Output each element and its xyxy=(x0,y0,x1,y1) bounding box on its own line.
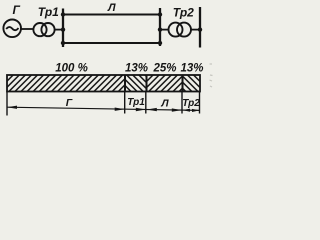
svg-text:Тр1: Тр1 xyxy=(127,97,145,108)
label Тр2 xyxy=(173,5,194,19)
value label 100% (Г) xyxy=(55,63,88,75)
busbar 2 xyxy=(159,8,161,46)
svg-text:Г: Г xyxy=(13,3,21,17)
junction busbar2 top xyxy=(158,12,162,16)
svg-text:13%: 13% xyxy=(125,63,148,75)
bar divider 2 xyxy=(146,75,148,92)
label Тр1 xyxy=(38,5,59,19)
wire Тр1 to busbar 1 xyxy=(55,29,63,31)
label Г xyxy=(13,3,21,17)
dimension arrow Г right xyxy=(115,108,125,111)
busbar 1 xyxy=(62,9,64,48)
junction busbar3 xyxy=(198,27,202,31)
svg-text:Л: Л xyxy=(160,98,169,110)
svg-text:Тр2: Тр2 xyxy=(173,5,194,19)
extension line Тр1 left xyxy=(124,92,126,114)
generator Г xyxy=(3,20,21,38)
dimension label Тр2 xyxy=(182,98,200,109)
dimension label Тр1 xyxy=(127,97,145,108)
bar segment Л hatched xyxy=(147,75,183,92)
junction busbar2 middle xyxy=(158,27,162,31)
bar divider 1 xyxy=(124,75,126,92)
dimension arrow Тр2 right xyxy=(192,109,200,112)
bar segment Г hatched xyxy=(7,75,125,92)
extension line Тр1 right xyxy=(145,92,147,114)
junction busbar1 middle xyxy=(61,27,65,31)
junction busbar1 bottom xyxy=(61,41,65,45)
busbar 3 xyxy=(199,7,201,48)
dimension label Г xyxy=(66,97,73,109)
bar outline xyxy=(7,75,200,92)
svg-text:13%: 13% xyxy=(180,63,203,75)
svg-text:25%: 25% xyxy=(152,63,176,75)
dimension arrow Тр2 left xyxy=(182,109,190,112)
dimension line xyxy=(7,107,200,110)
line Л bottom circuit wire xyxy=(63,42,160,44)
extension line left xyxy=(6,92,8,116)
dimension arrow Тр1 right xyxy=(136,108,146,111)
wire Г to Тр1 xyxy=(21,28,34,30)
svg-text:100 %: 100 % xyxy=(55,63,88,75)
label Л xyxy=(107,2,116,14)
value label 13% (Тр1) xyxy=(125,63,148,75)
bar segment Тр1 hatched xyxy=(125,75,147,92)
transformer Тр2 xyxy=(169,23,192,37)
transformer Тр1 xyxy=(33,23,54,36)
line Л top circuit wire xyxy=(63,14,160,16)
bar divider 3 xyxy=(182,75,184,92)
wire busbar 2 to Тр2 xyxy=(160,29,169,31)
svg-text:Г: Г xyxy=(66,97,73,109)
dimension arrow left end xyxy=(7,106,17,109)
junction busbar1 top xyxy=(61,12,65,16)
dimension arrow Л left xyxy=(147,108,157,111)
value label 13% (Тр2) xyxy=(180,63,203,75)
extension line Тр2 left xyxy=(181,92,183,114)
junction busbar2 bottom xyxy=(158,41,162,45)
bar segment Тр2 hatched xyxy=(183,75,201,92)
dimension label Л xyxy=(160,98,169,110)
extension line right xyxy=(199,92,201,114)
svg-text:Тр1: Тр1 xyxy=(38,5,59,19)
svg-text:Л: Л xyxy=(107,2,116,14)
svg-text:Тр2: Тр2 xyxy=(182,98,200,109)
dimension arrow Л right xyxy=(172,108,182,111)
wire Тр2 to busbar 3 xyxy=(191,29,200,31)
value label 25% (Л) xyxy=(152,63,176,75)
